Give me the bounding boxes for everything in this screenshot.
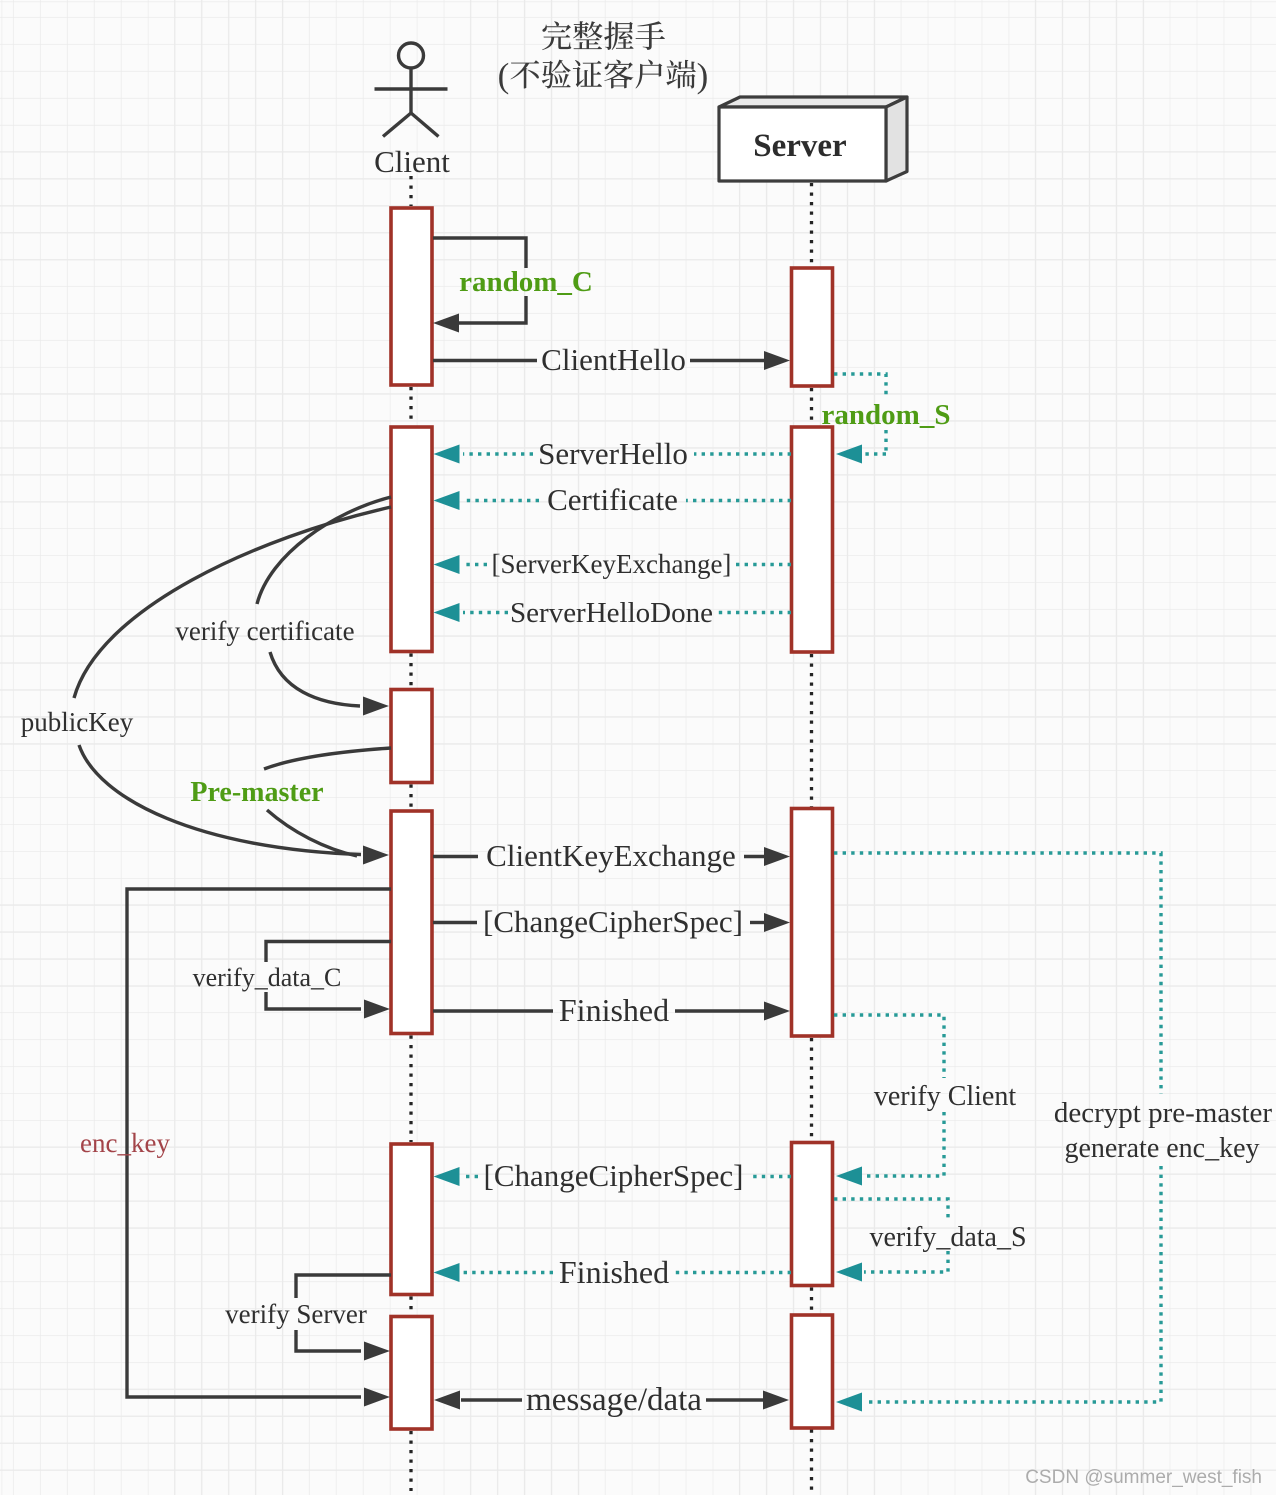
client activation 3 <box>391 690 432 783</box>
svg-text:enc_key: enc_key <box>80 1128 170 1158</box>
svg-text:verify certificate: verify certificate <box>175 616 354 646</box>
svg-text:CSDN @summer_west_fish: CSDN @summer_west_fish <box>1025 1467 1262 1488</box>
annotation arrow verify Client <box>834 1015 944 1176</box>
message [ChangeCipherSpec] to client <box>751 1175 791 1178</box>
annotation arrow verify_data_S <box>834 1199 948 1272</box>
self message verify Server loop <box>296 1275 391 1351</box>
client activation 4 <box>391 811 432 1034</box>
svg-text:[ServerKeyExchange]: [ServerKeyExchange] <box>492 549 732 579</box>
client activation 2 <box>391 427 432 652</box>
svg-text:Finished: Finished <box>559 992 669 1028</box>
svg-text:ClientKeyExchange: ClientKeyExchange <box>486 838 736 873</box>
message ServerHello <box>694 452 791 455</box>
message ServerHelloDone <box>715 611 791 614</box>
client activation 6 <box>391 1317 432 1430</box>
server activation 4 <box>792 1143 833 1286</box>
server activation 3 <box>792 809 833 1037</box>
svg-text:Certificate: Certificate <box>547 482 678 517</box>
svg-text:ClientHello: ClientHello <box>541 342 686 377</box>
svg-text:Server: Server <box>753 128 846 164</box>
svg-text:ServerHello: ServerHello <box>538 436 688 471</box>
svg-text:Finished: Finished <box>559 1254 669 1290</box>
annotation arrow decrypt pre-master / generate enc_key <box>834 853 1161 1402</box>
svg-text:publicKey: publicKey <box>21 707 134 737</box>
svg-text:generate enc_key: generate enc_key <box>1064 1133 1259 1164</box>
client activation 1 <box>391 208 432 385</box>
client activation 5 <box>391 1144 432 1295</box>
svg-text:random_C: random_C <box>459 266 593 298</box>
self message random_S loop <box>834 374 886 454</box>
self message verify_data_C loop <box>266 942 391 1010</box>
svg-text:[ChangeCipherSpec]: [ChangeCipherSpec] <box>483 904 743 939</box>
actor Client stick figure <box>375 43 448 137</box>
self message random_C loop <box>433 238 526 323</box>
server activation 5 <box>792 1315 833 1428</box>
server 3D box <box>719 97 907 181</box>
svg-text:(: ( <box>498 56 510 95</box>
annotation arrow verify certificate <box>257 497 391 604</box>
message Finished to client <box>675 1271 791 1274</box>
annotation arrow publicKey <box>74 507 391 698</box>
message Certificate <box>686 499 791 502</box>
server activation 1 <box>792 268 833 386</box>
svg-text:verify Client: verify Client <box>874 1081 1017 1112</box>
server activation 2 <box>792 427 833 652</box>
svg-text:verify_data_S: verify_data_S <box>869 1222 1026 1253</box>
svg-text:message/data: message/data <box>526 1382 702 1418</box>
client lifeline <box>409 176 412 206</box>
svg-text:[ChangeCipherSpec]: [ChangeCipherSpec] <box>484 1158 744 1193</box>
message message/data bidirectional <box>434 1391 460 1410</box>
message [ChangeCipherSpec] to server <box>433 921 477 924</box>
server lifeline <box>810 183 813 266</box>
enc_key long arrow <box>127 889 391 1397</box>
title line 1: 完整握手 <box>542 21 571 50</box>
svg-text:random_S: random_S <box>822 399 951 431</box>
message ClientHello <box>433 359 537 362</box>
svg-text:decrypt pre-master: decrypt pre-master <box>1054 1097 1273 1129</box>
svg-text:Pre-master: Pre-master <box>190 777 323 808</box>
annotation arrow Pre-master <box>264 748 391 769</box>
message ClientKeyExchange <box>433 855 478 858</box>
svg-text:): ) <box>697 56 709 95</box>
svg-text:ServerHelloDone: ServerHelloDone <box>510 597 713 629</box>
svg-text:verify Server: verify Server <box>225 1299 367 1329</box>
svg-text:verify_data_C: verify_data_C <box>193 963 342 992</box>
message [ServerKeyExchange] <box>736 563 791 566</box>
message Finished to server <box>433 1009 553 1012</box>
svg-text:Client: Client <box>374 144 450 179</box>
